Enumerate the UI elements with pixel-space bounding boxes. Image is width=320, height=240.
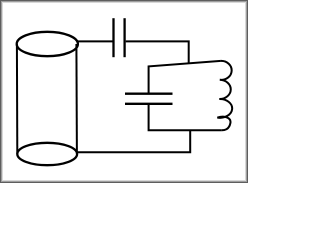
cylinder electrode: right side	[75, 44, 78, 154]
wire: tank left branch upper + slanted top (C2 top plate to L1 top)	[149, 61, 221, 93]
cylinder electrode: bottom ellipse	[17, 143, 77, 165]
cylinder electrode: top ellipse	[17, 32, 78, 56]
capacitor C1 left plate	[112, 18, 114, 57]
inductor L1 (three coil turns + bottom corner arc)	[217, 61, 232, 130]
wire: tank bottom + left branch lower (L1 bottom to C2 bottom plate)	[149, 105, 222, 130]
cylinder electrode: left side	[16, 44, 18, 154]
capacitor C2 bottom plate	[125, 103, 173, 105]
capacitor C1 right plate	[123, 18, 125, 57]
wire: capacitor C1 to tank top (with corner down)	[126, 41, 189, 63]
capacitor C2 top plate	[125, 93, 173, 95]
wire: cylinder top to capacitor C1	[77, 40, 113, 42]
wire: tank bottom to cylinder (corner)	[77, 130, 190, 152]
